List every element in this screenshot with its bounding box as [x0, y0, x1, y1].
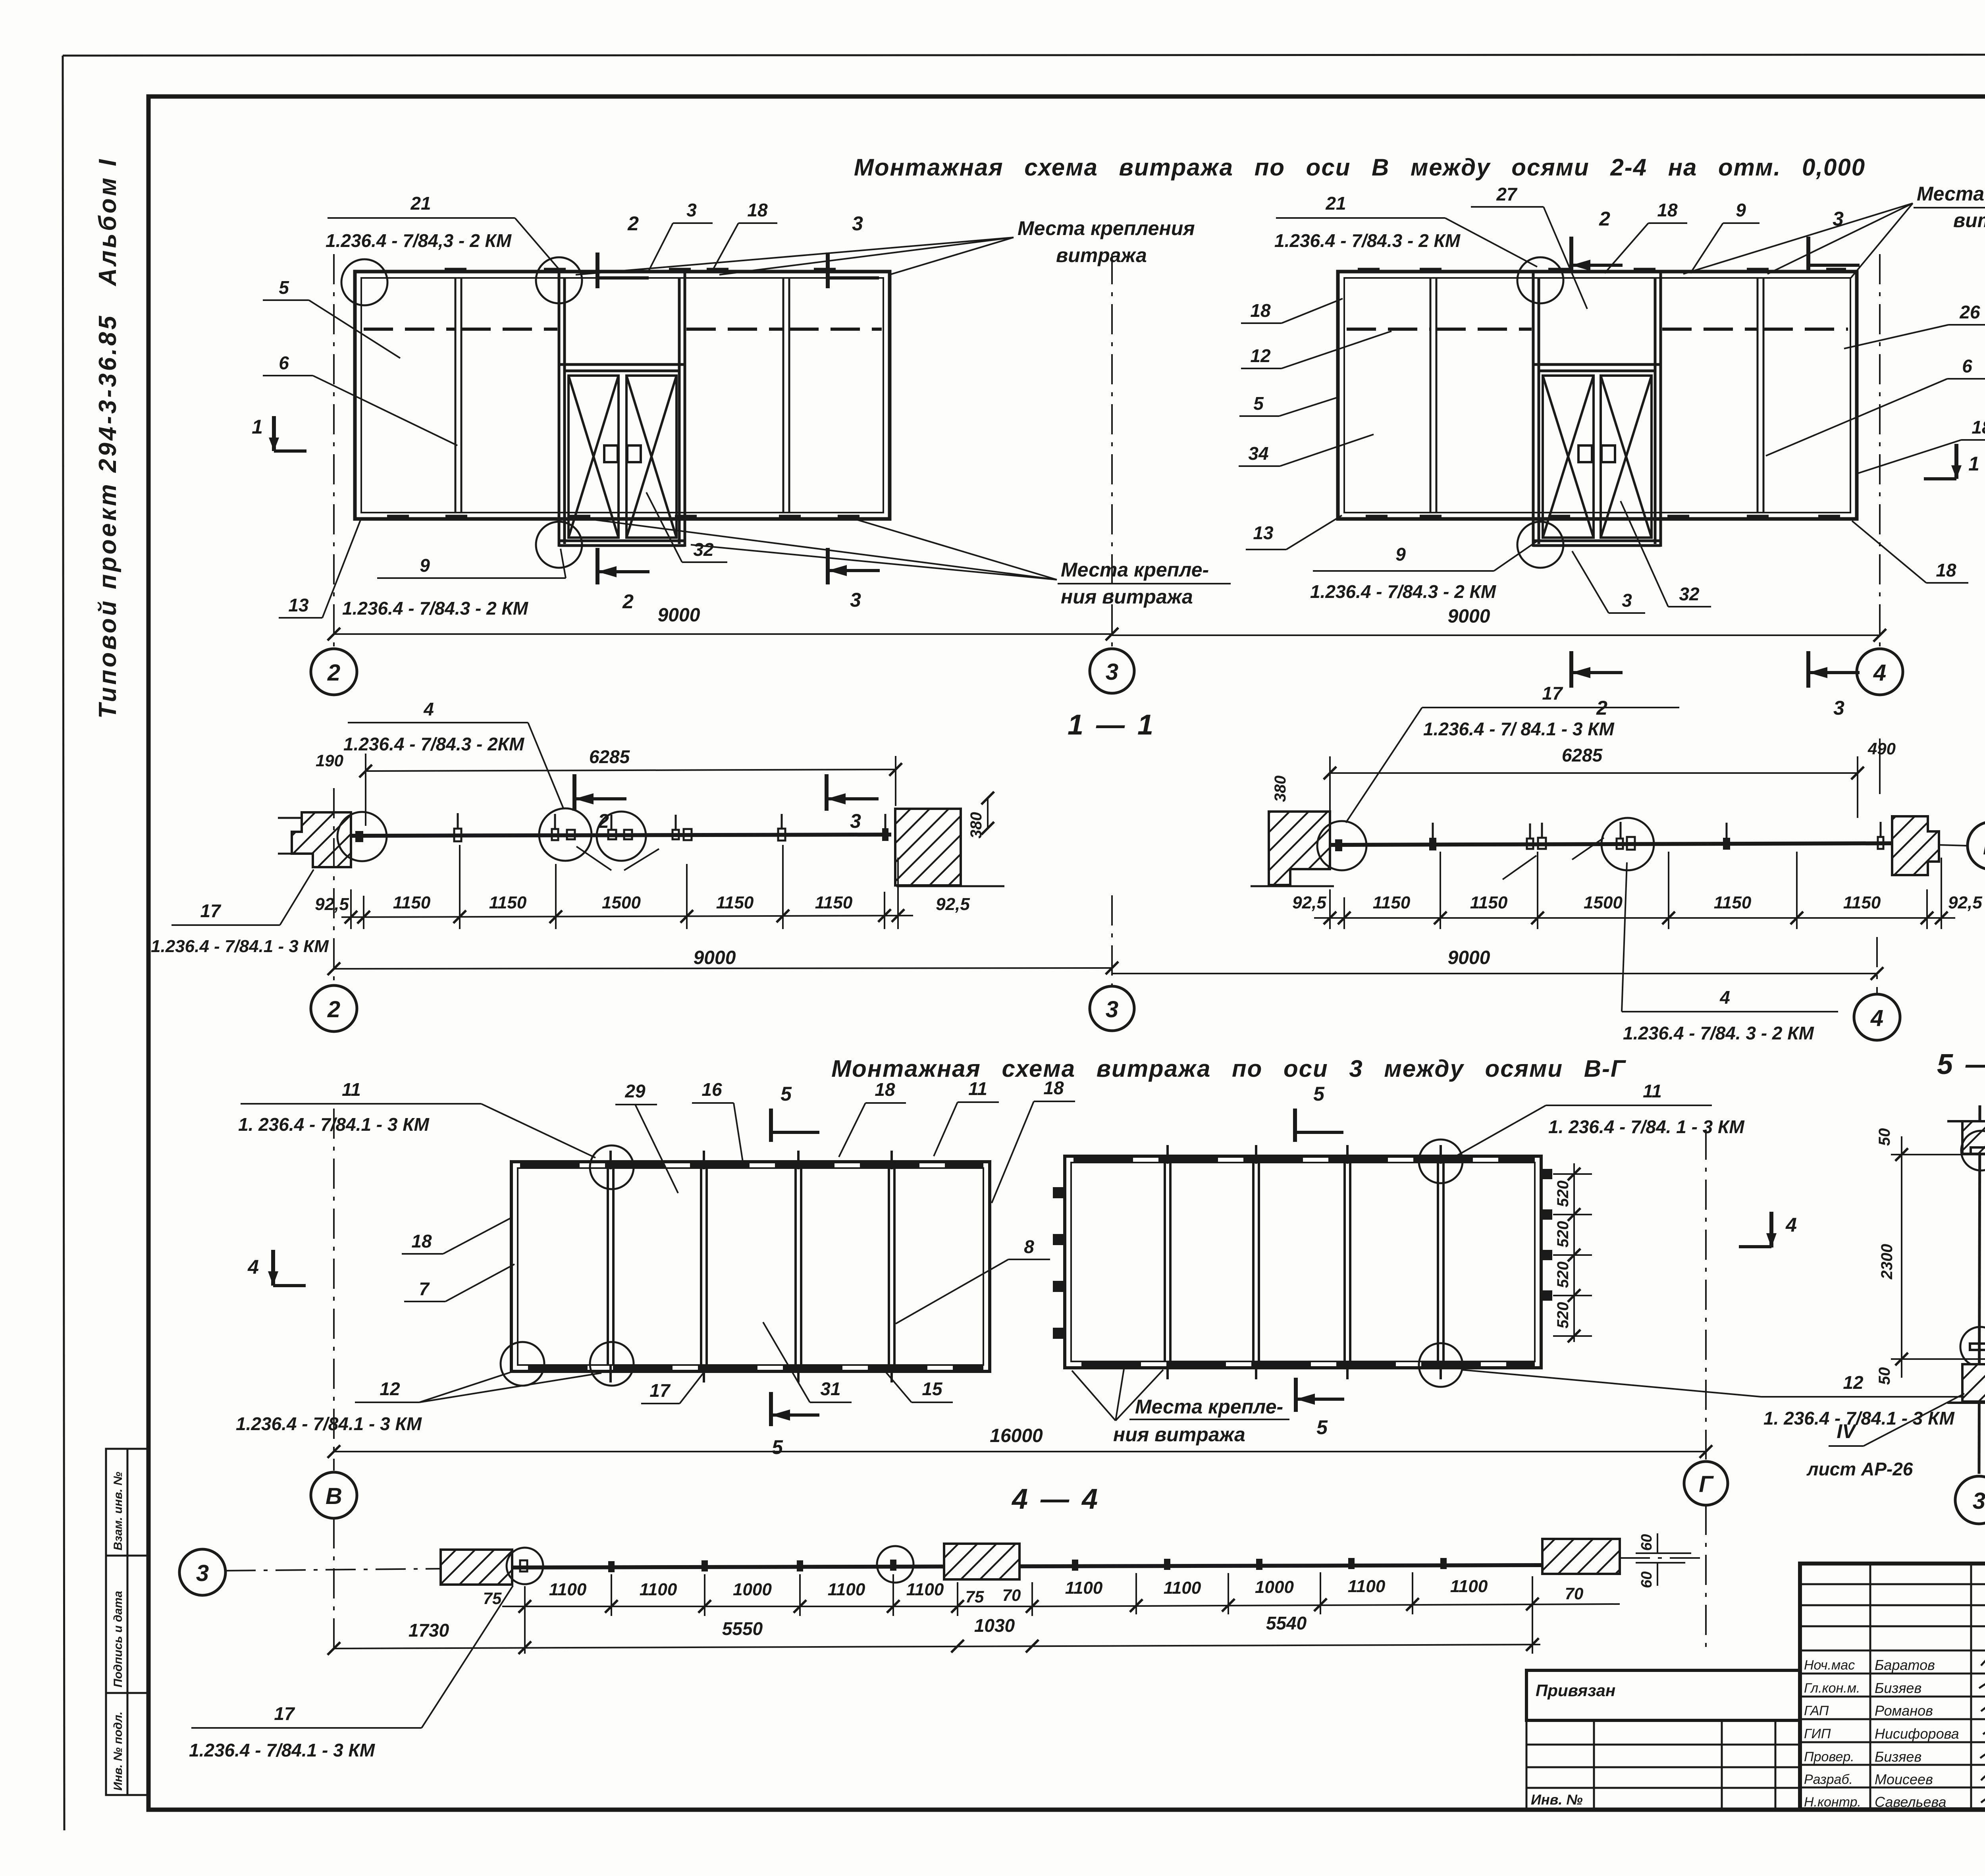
svg-text:9000: 9000: [1448, 606, 1490, 627]
mullion ticks plan1: [611, 1151, 892, 1382]
member end node: [882, 828, 888, 841]
dimension 9000 (elev 1): [334, 633, 1112, 635]
section cut mark 2 bottom: [1571, 651, 1623, 688]
mount circle 5-5 bottom: [1960, 1327, 1985, 1367]
svg-text:2: 2: [327, 997, 340, 1022]
svg-text:1150: 1150: [815, 893, 853, 912]
svg-text:Ноч.мас: Ноч.мас: [1804, 1658, 1855, 1673]
svg-text:520: 520: [1554, 1261, 1572, 1288]
mullion 1: [455, 278, 461, 513]
svg-text:13: 13: [1253, 523, 1274, 543]
svg-text:92,5: 92,5: [1292, 893, 1326, 912]
svg-text:2: 2: [597, 810, 609, 832]
svg-text:5: 5: [1253, 393, 1264, 414]
svg-text:75: 75: [483, 1589, 502, 1608]
svg-text:92,5: 92,5: [1948, 893, 1982, 912]
svg-text:1100: 1100: [549, 1580, 587, 1599]
svg-text:Инв. №: Инв. №: [1531, 1791, 1583, 1808]
wall block left (hatched): [292, 812, 351, 867]
section cut mark 2 (1-1): [574, 774, 626, 811]
svg-text:4: 4: [247, 1256, 259, 1278]
axis circle 2 (mid): [311, 985, 357, 1032]
impost member 1-1 right: [1330, 843, 1892, 845]
plan 1 mullion 4: [889, 1168, 894, 1365]
plan 1 frame: [511, 1162, 990, 1371]
section cut mark 3 bottom: [1808, 651, 1860, 688]
svg-text:1730: 1730: [409, 1620, 449, 1641]
mullion ticks plan2: [1168, 1145, 1441, 1379]
axis circle 4: [1857, 649, 1903, 695]
dim chain 520x4 (plan2 right): [1553, 1163, 1592, 1342]
stamp outline: [1800, 1564, 1985, 1809]
axis 3 centerline: [1111, 254, 1113, 648]
svg-text:21: 21: [410, 193, 431, 214]
svg-text:ния витража: ния витража: [1061, 586, 1193, 608]
dimension chain 4-4 upper right: [1032, 1604, 1620, 1606]
signature labels: [1804, 1658, 1861, 1810]
member node pair with circle (right): [1601, 818, 1654, 870]
axis 4 centerline: [1879, 254, 1881, 649]
svg-text:18: 18: [1657, 200, 1678, 220]
axis Г centerline (4-4): [1705, 1505, 1707, 1648]
signatures (squiggles): [1979, 1658, 1985, 1807]
svg-text:1100: 1100: [640, 1580, 677, 1599]
svg-text:3: 3: [850, 810, 861, 832]
svg-text:1000: 1000: [733, 1580, 772, 1599]
dimension 9000 (mid right): [1112, 973, 1877, 974]
plan 1 bottom chord dashes: [528, 1366, 983, 1371]
mount circle at wall (right 1-1): [1317, 821, 1366, 870]
svg-text:1.236.4 - 7/84.1 - 3 КМ: 1.236.4 - 7/84.1 - 3 КМ: [151, 937, 329, 956]
svg-text:Романов: Романов: [1875, 1702, 1933, 1719]
svg-text:3: 3: [1622, 590, 1632, 611]
svg-text:1100: 1100: [1065, 1578, 1103, 1598]
wall block right 4-4 (hatched): [1542, 1539, 1620, 1574]
svg-text:5550: 5550: [722, 1618, 763, 1639]
svg-text:Места крепле-: Места крепле-: [1061, 559, 1209, 581]
signature names: [1875, 1657, 1959, 1810]
svg-text:18: 18: [411, 1231, 432, 1251]
svg-text:Н.контр.: Н.контр.: [1804, 1795, 1861, 1810]
svg-text:1.236.4 - 7/84.3 - 2 КМ: 1.236.4 - 7/84.3 - 2 КМ: [1274, 230, 1461, 251]
section cut mark 5 bottom (plan2): [1296, 1378, 1344, 1412]
svg-text:1150: 1150: [1714, 893, 1752, 912]
svg-text:16: 16: [701, 1079, 722, 1100]
V pointer lines (right): [1503, 838, 1604, 879]
svg-text:3: 3: [1973, 1488, 1985, 1514]
plan 1 mullion 3: [796, 1168, 801, 1365]
svg-text:11: 11: [1643, 1081, 1662, 1101]
vitrage frame outer: [355, 272, 890, 519]
svg-text:3: 3: [1106, 659, 1118, 685]
svg-text:9: 9: [420, 555, 430, 576]
svg-text:15: 15: [922, 1379, 943, 1399]
member node pair: [673, 830, 679, 839]
svg-text:1150: 1150: [489, 893, 527, 912]
door leaf left with cross: [1543, 376, 1594, 538]
member end node (right): [1878, 837, 1883, 849]
V pointer lines: [576, 846, 659, 870]
svg-text:1100: 1100: [1164, 1578, 1201, 1598]
svg-text:IV: IV: [1837, 1420, 1857, 1442]
svg-text:18: 18: [1250, 300, 1271, 321]
axis B centerline (4-4): [333, 1518, 335, 1654]
signature table columns: [1870, 1564, 1985, 1809]
dimension chain 92,5/1150... (left): [341, 916, 913, 917]
centerline tail to axis Г: [1620, 1557, 1706, 1559]
svg-text:18: 18: [1936, 560, 1956, 580]
fixing marks on top chord: [1358, 268, 1846, 273]
vitrage frame outer: [1338, 272, 1857, 519]
svg-text:Типовой проект 294-3-36.85 А: Типовой проект 294-3-36.85 Альбом I: [94, 157, 121, 719]
svg-text:26: 26: [1959, 302, 1980, 322]
svg-text:Савельева: Савельева: [1875, 1794, 1946, 1810]
member node 1: [454, 829, 461, 841]
top anchor block (hatched): [1962, 1121, 1985, 1154]
svg-text:490: 490: [1867, 739, 1896, 758]
fixing marks on bottom chord: [387, 515, 860, 520]
mullion 2: [1758, 278, 1763, 513]
mount circle 4-4 b: [877, 1546, 913, 1583]
svg-text:5 — 5: 5 — 5: [1937, 1049, 1985, 1080]
svg-text:12: 12: [380, 1379, 400, 1399]
svg-text:7: 7: [419, 1278, 430, 1299]
svg-text:1.236.4 - 7/84. 3 - 2 КМ: 1.236.4 - 7/84. 3 - 2 КМ: [1623, 1023, 1815, 1043]
svg-text:4: 4: [423, 699, 434, 719]
plan 2 mullion 1: [1165, 1163, 1170, 1361]
wall block right (hatched): [895, 809, 961, 885]
svg-text:Баратов: Баратов: [1875, 1657, 1935, 1673]
node stems (1-1 left): [458, 813, 885, 830]
svg-text:1.236.4 - 7/84.1 - 3 КМ: 1.236.4 - 7/84.1 - 3 КМ: [189, 1740, 376, 1760]
svg-text:12: 12: [1250, 345, 1271, 366]
svg-text:190: 190: [316, 751, 343, 770]
svg-text:1150: 1150: [1373, 893, 1411, 912]
mount circle plan1 bottom mullion: [590, 1342, 634, 1386]
svg-text:5540: 5540: [1266, 1613, 1307, 1633]
svg-text:29: 29: [624, 1081, 646, 1101]
dimension 9000 (mid left): [334, 968, 1112, 969]
svg-text:18: 18: [1972, 417, 1985, 438]
svg-text:60: 60: [1638, 1571, 1655, 1588]
svg-text:31: 31: [820, 1379, 840, 1399]
svg-text:520: 520: [1554, 1302, 1572, 1328]
mount circle plan2 bottom: [1419, 1343, 1463, 1387]
svg-text:3: 3: [852, 212, 863, 235]
fixing squares on plan2 left edge: [1053, 1187, 1064, 1339]
svg-text:Монтажная схема витража по: Монтажная схема витража по оси 3 между о…: [831, 1055, 1627, 1082]
member node pair with circle (pos 4): [539, 808, 592, 861]
svg-text:1150: 1150: [716, 893, 754, 912]
svg-text:Моисеев: Моисеев: [1875, 1771, 1933, 1787]
svg-text:13: 13: [288, 595, 309, 615]
mount circle plan1 bottom-left corner: [501, 1342, 544, 1386]
svg-text:4: 4: [1785, 1214, 1797, 1236]
signature table rows: [1800, 1584, 1985, 1787]
door leaf right with cross: [1601, 376, 1652, 538]
axis circle 3: [1090, 649, 1134, 693]
svg-text:ния витража: ния витража: [1113, 1423, 1245, 1446]
svg-text:1.236.4 - 7/ 84.1 - 3 КМ: 1.236.4 - 7/ 84.1 - 3 КМ: [1423, 719, 1615, 739]
mount circle plan1 top: [590, 1145, 634, 1189]
svg-text:17: 17: [200, 900, 222, 921]
svg-text:Места крепления: Места крепления: [1018, 217, 1195, 239]
section cut mark 5 bottom (plan1): [771, 1392, 819, 1426]
plan 2 mullion 4: [1438, 1163, 1443, 1361]
section cut mark 2 bottom: [597, 548, 649, 584]
svg-text:1. 236.4 - 7/84. 1 - 3 КМ: 1. 236.4 - 7/84. 1 - 3 КМ: [1548, 1116, 1745, 1137]
svg-text:5: 5: [1313, 1083, 1325, 1105]
svg-text:Монтажная схема витража по: Монтажная схема витража по оси В между о…: [854, 154, 1866, 181]
svg-text:12: 12: [1843, 1372, 1864, 1393]
svg-text:34: 34: [1248, 443, 1268, 464]
svg-text:32: 32: [1679, 584, 1700, 604]
bottom anchor block (hatched): [1962, 1364, 1985, 1402]
mount circle top-left: [341, 259, 387, 305]
member node 1 (right): [1429, 838, 1436, 850]
svg-text:5: 5: [1316, 1416, 1328, 1438]
svg-text:Подпись и дата: Подпись и дата: [112, 1591, 125, 1687]
svg-text:Бизяев: Бизяев: [1875, 1749, 1921, 1765]
svg-text:520: 520: [1554, 1221, 1572, 1247]
svg-text:520: 520: [1554, 1180, 1572, 1207]
svg-text:Нисифорова: Нисифорова: [1875, 1726, 1959, 1742]
svg-text:5: 5: [279, 277, 289, 298]
impost member 4-4: [512, 1565, 1542, 1568]
svg-text:60: 60: [1638, 1534, 1655, 1551]
axis B centerline (plans): [333, 1109, 335, 1471]
plan 2 frame: [1065, 1156, 1541, 1368]
member node single (right): [1723, 838, 1730, 850]
Привязан box: [1526, 1670, 1800, 1720]
svg-text:3: 3: [1833, 697, 1844, 719]
svg-text:6285: 6285: [1562, 745, 1603, 765]
svg-text:17: 17: [1542, 683, 1563, 704]
fixing marks on top chord: [445, 268, 836, 273]
svg-text:1: 1: [252, 416, 263, 438]
node stems (1-1 right): [1433, 822, 1881, 839]
door frame: [559, 272, 685, 547]
door handles: [604, 445, 618, 462]
plan 1 mullion 2: [701, 1168, 707, 1365]
mount circle door top: [536, 257, 582, 303]
svg-text:ГАП: ГАП: [1804, 1703, 1829, 1718]
svg-text:3: 3: [1106, 997, 1118, 1022]
ground line under right block: [896, 885, 1004, 887]
fixing marks on bottom chord: [1366, 515, 1840, 520]
svg-text:1100: 1100: [906, 1580, 944, 1599]
svg-text:4: 4: [1719, 987, 1730, 1008]
glazing dashed line: [1347, 328, 1848, 331]
svg-text:17: 17: [274, 1703, 295, 1724]
svg-text:32: 32: [693, 539, 714, 560]
door leaf left with cross: [569, 376, 619, 538]
svg-text:6285: 6285: [589, 746, 630, 767]
svg-text:1.236.4 - 7/84.1 - 3 КМ: 1.236.4 - 7/84.1 - 3 КМ: [236, 1413, 422, 1434]
svg-text:2: 2: [622, 590, 634, 613]
svg-text:11: 11: [968, 1078, 987, 1099]
svg-text:1.236.4 - 7/84,3 - 2 КМ: 1.236.4 - 7/84,3 - 2 КМ: [326, 230, 512, 251]
plan 1 mullion 1: [608, 1168, 613, 1365]
mullion 2: [783, 278, 789, 513]
axis circle Г (plans): [1684, 1461, 1728, 1505]
axis circle 2: [311, 649, 357, 695]
svg-text:лист АР-26: лист АР-26: [1806, 1459, 1913, 1479]
svg-text:Разраб.: Разраб.: [1804, 1772, 1853, 1787]
lower-left grid of stamp: [1526, 1720, 1800, 1809]
bottom level line: [1891, 1358, 1985, 1360]
wall ledge lines: [278, 818, 302, 854]
member node pair with circle: [597, 812, 646, 861]
svg-text:1 — 1: 1 — 1: [1068, 709, 1156, 741]
svg-text:21: 21: [1325, 193, 1346, 214]
svg-text:2: 2: [327, 660, 340, 686]
svg-text:1. 236.4 - 7/84.1 - 3 КМ: 1. 236.4 - 7/84.1 - 3 КМ: [1763, 1408, 1955, 1429]
axis 2 centerline: [333, 254, 335, 647]
svg-text:17: 17: [649, 1380, 671, 1401]
plan 2 top chord dashes: [1073, 1157, 1535, 1162]
tail line to axis B: [1939, 845, 1967, 846]
vitrage frame inner double line: [361, 278, 883, 513]
impost member 5-5: [1979, 1105, 1980, 1474]
vitrage frame inner double line: [1344, 278, 1850, 513]
mount circle 5-5 top: [1961, 1131, 1985, 1170]
svg-text:18: 18: [875, 1079, 895, 1100]
svg-text:Гл.кон.м.: Гл.кон.м.: [1804, 1681, 1860, 1696]
svg-text:1.236.4 - 7/84.3 - 2 КМ: 1.236.4 - 7/84.3 - 2 КМ: [342, 598, 529, 619]
svg-text:2: 2: [627, 212, 639, 235]
svg-text:1000: 1000: [1255, 1577, 1294, 1597]
svg-text:3: 3: [850, 589, 861, 611]
svg-text:11: 11: [342, 1079, 361, 1100]
svg-text:3: 3: [686, 200, 697, 220]
plan 2 mullion 2: [1253, 1163, 1259, 1361]
svg-text:5: 5: [772, 1436, 783, 1458]
svg-text:70: 70: [1565, 1584, 1584, 1603]
svg-text:16000: 16000: [990, 1425, 1043, 1446]
plan 2 bottom chord dashes: [1081, 1362, 1535, 1367]
svg-text:витража: витража: [1056, 244, 1147, 266]
dimension chain (right): [1314, 917, 1955, 919]
svg-text:18: 18: [1043, 1078, 1064, 1098]
wall block middle 4-4 (hatched): [944, 1544, 1019, 1579]
svg-text:витража: витража: [1953, 209, 1985, 231]
top level line: [1891, 1154, 1985, 1155]
svg-text:4 — 4: 4 — 4: [1011, 1483, 1100, 1515]
svg-text:6: 6: [1962, 356, 1972, 376]
svg-text:В: В: [1983, 834, 1985, 860]
svg-text:75: 75: [966, 1587, 984, 1606]
axis circle 3 (4-4 left): [179, 1549, 225, 1595]
dimension line 4-4 lower: [334, 1645, 1540, 1648]
svg-text:9000: 9000: [658, 605, 700, 626]
dimension 6285 (left): [366, 769, 896, 771]
wall block right small (hatched): [1892, 816, 1939, 875]
dimension 6285 (right): [1330, 772, 1858, 774]
svg-text:2300: 2300: [1878, 1244, 1896, 1280]
section cut mark 3 bottom: [828, 548, 880, 584]
svg-text:Провер.: Провер.: [1804, 1749, 1854, 1764]
svg-text:380: 380: [1272, 775, 1289, 802]
svg-text:8: 8: [1024, 1236, 1034, 1257]
axis 2 centerline (mid): [333, 788, 335, 984]
svg-text:1030: 1030: [974, 1615, 1015, 1636]
svg-text:ГИП: ГИП: [1804, 1726, 1831, 1741]
axis 3 horizontal centerline: [225, 1569, 441, 1571]
axis circle 3 (5-5): [1955, 1476, 1985, 1524]
svg-text:2: 2: [1599, 208, 1610, 230]
mount circle at wall: [337, 812, 387, 861]
svg-text:1500: 1500: [1584, 893, 1623, 912]
member nodes left half: [608, 1561, 615, 1572]
axis circle B (plans): [311, 1472, 357, 1518]
plan 1 top chord dashes: [520, 1163, 983, 1168]
svg-text:92,5: 92,5: [936, 895, 970, 914]
axis circle B (mid right): [1968, 822, 1985, 870]
axis 4 centerline (mid): [1876, 937, 1878, 995]
svg-text:1: 1: [1968, 453, 1979, 475]
svg-text:1150: 1150: [1470, 893, 1508, 912]
svg-text:Инв. № подл.: Инв. № подл.: [112, 1712, 125, 1791]
axis Г centerline (plans): [1705, 1130, 1707, 1460]
svg-text:50: 50: [1876, 1128, 1893, 1146]
svg-text:1100: 1100: [1348, 1577, 1386, 1596]
dimension 16000: [334, 1451, 1706, 1452]
mount circle 4-4 a: [507, 1548, 543, 1584]
svg-text:Г: Г: [1699, 1471, 1714, 1497]
plan 2 mullion 3: [1345, 1163, 1350, 1361]
svg-text:70: 70: [1002, 1586, 1021, 1604]
svg-text:В: В: [326, 1483, 342, 1509]
wall block left 4-4 (hatched): [441, 1550, 512, 1585]
door handles: [1578, 445, 1592, 462]
wall block left (hatched, right 1-1): [1269, 812, 1330, 885]
bottom block ledge: [1947, 1402, 1985, 1404]
glazing dashed line: [364, 328, 882, 331]
svg-text:Привязан: Привязан: [1536, 1681, 1615, 1700]
dimension 9000 (elev 2): [1112, 634, 1880, 636]
svg-text:Бизяев: Бизяев: [1875, 1680, 1921, 1696]
mount circle door bottom: [536, 522, 582, 568]
svg-text:1150: 1150: [1843, 893, 1881, 912]
member node pair (right): [1527, 839, 1533, 849]
ground line under left block: [1251, 885, 1334, 887]
svg-text:18: 18: [747, 200, 768, 220]
section cut mark 3 (1-1): [827, 774, 879, 811]
top block ledge: [1947, 1120, 1985, 1122]
axis circle 4 (mid): [1854, 994, 1900, 1040]
svg-text:92,5: 92,5: [315, 895, 349, 914]
svg-text:3: 3: [196, 1560, 209, 1586]
svg-text:4: 4: [1873, 660, 1886, 686]
svg-text:5: 5: [781, 1083, 792, 1105]
svg-text:1.236.4 - 7/84.3 - 2КМ: 1.236.4 - 7/84.3 - 2КМ: [343, 734, 525, 754]
dimension chain 4-4 upper left: [502, 1606, 1032, 1607]
mount circle plan2 top: [1419, 1139, 1463, 1183]
svg-text:Места крепле-: Места крепле-: [1135, 1396, 1283, 1418]
dim 60/60 (4-4 right): [1636, 1533, 1691, 1586]
member nodes right half: [1072, 1560, 1078, 1571]
svg-text:27: 27: [1496, 184, 1518, 204]
svg-text:Взам. инв. №: Взам. инв. №: [112, 1472, 125, 1550]
svg-text:9000: 9000: [1448, 947, 1490, 968]
door frame: [1533, 272, 1661, 547]
fixing squares on plan2 right edge: [1542, 1169, 1552, 1301]
mullion 1: [1430, 278, 1436, 513]
member node single: [778, 829, 785, 841]
svg-text:Места крепления: Места крепления: [1917, 183, 1985, 205]
svg-text:1100: 1100: [1450, 1577, 1488, 1596]
